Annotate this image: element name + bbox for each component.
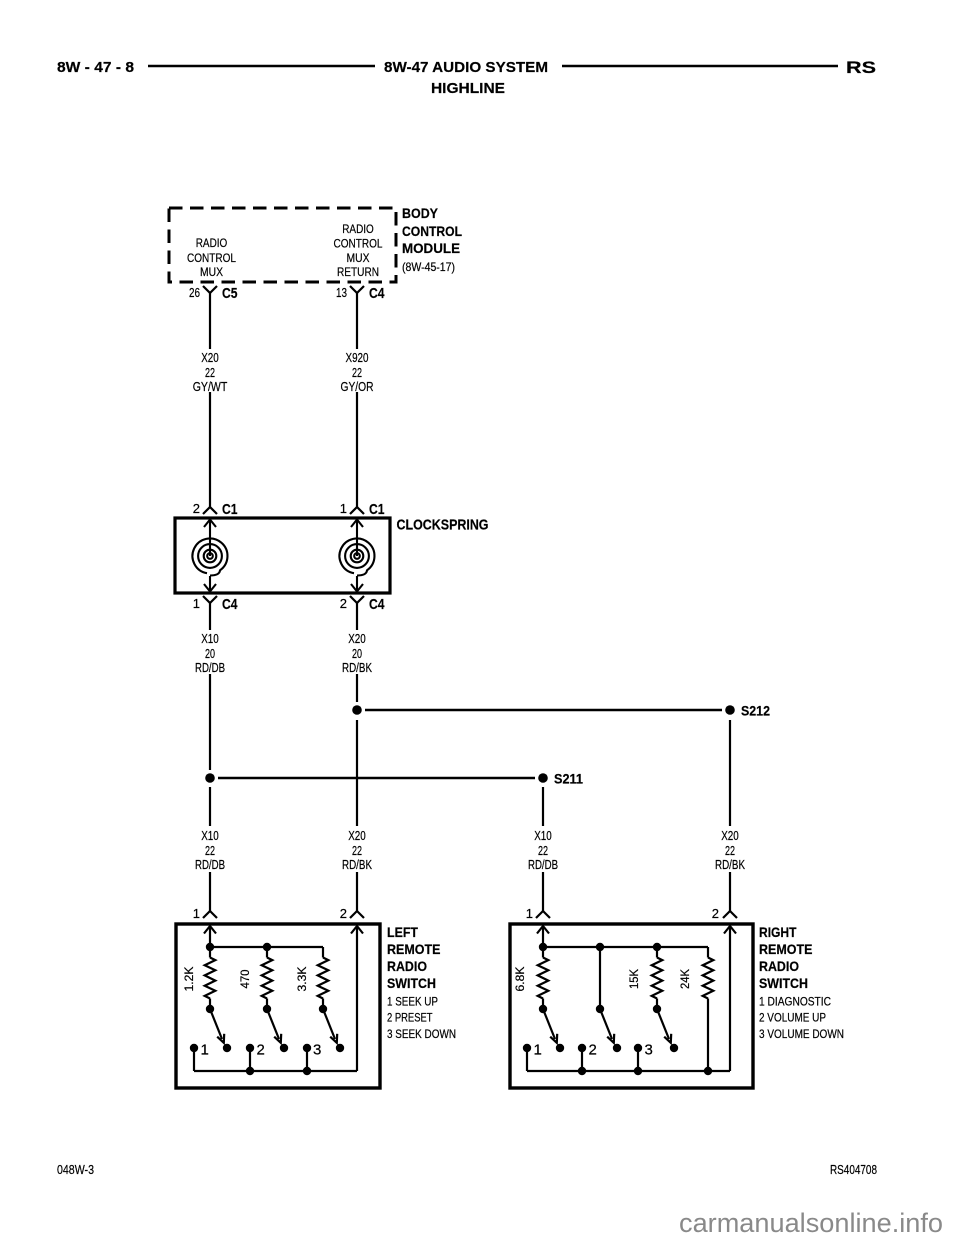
svg-text:HIGHLINE: HIGHLINE bbox=[431, 80, 505, 97]
svg-text:1: 1 bbox=[340, 501, 347, 516]
svg-text:24K: 24K bbox=[678, 969, 692, 989]
svg-text:S211: S211 bbox=[554, 771, 583, 787]
svg-text:1: 1 bbox=[193, 906, 200, 921]
svg-text:1 SEEK UP: 1 SEEK UP bbox=[387, 997, 438, 1009]
svg-text:2: 2 bbox=[712, 906, 719, 921]
left switch legend bbox=[387, 997, 456, 1042]
wire S212 through to left switch pin 2, upper bbox=[356, 720, 358, 826]
svg-text:15K: 15K bbox=[627, 969, 641, 989]
svg-text:RS404708: RS404708 bbox=[830, 1162, 877, 1177]
svg-text:SWITCH: SWITCH bbox=[387, 975, 436, 991]
left switch connector pin 1 bbox=[193, 906, 217, 921]
svg-text:S212: S212 bbox=[741, 703, 770, 719]
right bus junction pin3 bbox=[634, 1067, 642, 1075]
svg-text:RD/BK: RD/BK bbox=[715, 857, 745, 872]
right switch pin2 entry arrow and feed wire bbox=[724, 926, 736, 1071]
switch 2 throw dot bbox=[280, 1044, 288, 1052]
svg-text:X20: X20 bbox=[721, 828, 739, 843]
svg-text:C4: C4 bbox=[369, 596, 385, 613]
resistor 6.8K bbox=[538, 947, 549, 1009]
wire X20 20 RD/BK upper segment bbox=[356, 603, 358, 630]
svg-text:X10: X10 bbox=[201, 828, 219, 843]
svg-text:22: 22 bbox=[725, 843, 735, 858]
svg-text:1: 1 bbox=[534, 1042, 542, 1059]
left switch pin2 entry arrow and feed wire bbox=[351, 926, 363, 1071]
left switch pin1 entry arrow bbox=[204, 926, 216, 947]
svg-text:22: 22 bbox=[352, 843, 362, 858]
svg-text:RADIO: RADIO bbox=[387, 958, 427, 974]
wire X10 to splice S211 bbox=[209, 674, 211, 770]
svg-text:3: 3 bbox=[313, 1042, 321, 1059]
svg-text:RD/BK: RD/BK bbox=[342, 857, 372, 872]
switch 3 contact dot below 3.3K bbox=[319, 1005, 327, 1013]
connector C4 pin 1 bbox=[193, 596, 238, 613]
svg-text:RD/DB: RD/DB bbox=[195, 857, 225, 872]
right bus junction pin2 bbox=[578, 1067, 586, 1075]
svg-text:3: 3 bbox=[645, 1042, 653, 1059]
switch 1 wiper arrow bbox=[210, 1009, 224, 1043]
svg-text:GY/OR: GY/OR bbox=[341, 379, 374, 394]
splice S211 right junction bbox=[538, 773, 548, 783]
junction top of 1.2K bbox=[206, 943, 214, 951]
svg-text:carmanualsonline.info: carmanualsonline.info bbox=[679, 1208, 943, 1238]
svg-text:2: 2 bbox=[340, 596, 347, 611]
wire label X920 22 GY/OR bbox=[341, 350, 374, 394]
connector C1 pin 2 bbox=[193, 501, 238, 518]
svg-text:X10: X10 bbox=[201, 631, 219, 646]
svg-text:CLOCKSPRING: CLOCKSPRING bbox=[397, 517, 489, 534]
svg-text:1: 1 bbox=[526, 906, 533, 921]
svg-text:22: 22 bbox=[205, 365, 215, 380]
svg-text:20: 20 bbox=[352, 646, 362, 661]
wire label X10 22 RD/DB right bbox=[528, 828, 558, 872]
wire into right switch pin 1 bbox=[542, 872, 544, 911]
svg-text:RD/DB: RD/DB bbox=[195, 660, 225, 675]
right switch top rail bbox=[543, 946, 708, 948]
switch 1 seek up: contact dot below 1.2K bbox=[206, 1005, 214, 1013]
right switch 1 wiper arrow bbox=[543, 1009, 557, 1043]
bus junction pin2 bbox=[246, 1067, 254, 1075]
svg-text:C1: C1 bbox=[222, 501, 238, 518]
switch 1 throw dot bbox=[223, 1044, 231, 1052]
svg-text:RADIO: RADIO bbox=[759, 958, 799, 974]
right switch legend bbox=[759, 997, 844, 1042]
svg-text:LEFT: LEFT bbox=[387, 924, 418, 940]
svg-text:BODY: BODY bbox=[402, 205, 439, 221]
svg-text:X20: X20 bbox=[201, 350, 219, 365]
svg-text:X10: X10 bbox=[534, 828, 552, 843]
right switch name bbox=[759, 924, 813, 991]
right pin 3 terminal bbox=[634, 1042, 653, 1072]
right switch connector pin 1 bbox=[526, 906, 550, 921]
svg-text:13: 13 bbox=[336, 285, 347, 300]
wire label X10 20 RD/DB bbox=[195, 631, 225, 675]
svg-text:8W - 47 - 8: 8W - 47 - 8 bbox=[57, 59, 134, 76]
splice S212 left junction bbox=[352, 705, 362, 715]
svg-text:MODULE: MODULE bbox=[402, 240, 460, 256]
BODY CONTROL MODULE name bbox=[402, 205, 462, 274]
switch 2 wiper arrow bbox=[267, 1009, 281, 1043]
wire X920 lower segment bbox=[356, 392, 358, 507]
svg-text:8W-47 AUDIO SYSTEM: 8W-47 AUDIO SYSTEM bbox=[384, 59, 548, 76]
svg-text:REMOTE: REMOTE bbox=[387, 941, 441, 957]
junction top of 6.8K bbox=[539, 943, 547, 951]
wire label X20 22 RD/BK right bbox=[715, 828, 745, 872]
left switch name bbox=[387, 924, 441, 991]
svg-text:MUX: MUX bbox=[200, 265, 223, 279]
svg-text:RD/BK: RD/BK bbox=[342, 660, 372, 675]
wire X20 lower segment bbox=[209, 392, 211, 507]
left pin 1 terminal bbox=[190, 1042, 209, 1072]
svg-text:1: 1 bbox=[193, 596, 200, 611]
left pin 2 terminal bbox=[246, 1042, 265, 1072]
switch 2 contact dot below 470 bbox=[263, 1005, 271, 1013]
right switch pin1 entry arrow bbox=[537, 926, 549, 947]
wire label X10 22 RD/DB left bbox=[195, 828, 225, 872]
right pin 1 terminal bbox=[523, 1042, 542, 1072]
right switch connector pin 2 bbox=[712, 906, 737, 921]
wire label X20 22 GY/WT bbox=[193, 350, 228, 394]
resistor 15K bbox=[652, 947, 663, 1009]
svg-text:20: 20 bbox=[205, 646, 215, 661]
left pin 3 terminal bbox=[303, 1042, 322, 1072]
right switch bottom bus bbox=[527, 1070, 730, 1072]
left switch bottom bus bbox=[194, 1070, 357, 1072]
header right rule bbox=[562, 65, 838, 68]
svg-text:CONTROL: CONTROL bbox=[187, 251, 236, 265]
junction top of 15K bbox=[653, 943, 661, 951]
svg-text:(8W-45-17): (8W-45-17) bbox=[402, 260, 455, 274]
svg-text:048W-3: 048W-3 bbox=[57, 1162, 94, 1177]
wire into left switch pin 1 bbox=[209, 872, 211, 911]
diagnostic straight wire bbox=[599, 947, 601, 1009]
resistor 470 bbox=[262, 947, 273, 1009]
splice S211 horizontal wire bbox=[218, 777, 535, 780]
svg-text:RADIO: RADIO bbox=[196, 236, 228, 250]
right pin 2 terminal bbox=[578, 1042, 597, 1072]
wire S212 right dot down, upper bbox=[729, 720, 731, 826]
connector C4 pin 2 bbox=[340, 596, 385, 613]
svg-text:RIGHT: RIGHT bbox=[759, 924, 797, 940]
svg-text:2: 2 bbox=[193, 501, 200, 516]
bus junction pin3 bbox=[303, 1067, 311, 1075]
switch 3 throw dot bbox=[336, 1044, 344, 1052]
right switch 3 wiper arrow bbox=[657, 1009, 671, 1043]
svg-text:22: 22 bbox=[538, 843, 548, 858]
wire X20 upper segment bbox=[209, 293, 211, 349]
svg-text:470: 470 bbox=[238, 969, 252, 988]
junction top of diagnostic wire bbox=[596, 943, 604, 951]
svg-text:2 PRESET: 2 PRESET bbox=[387, 1013, 433, 1025]
svg-text:3.3K: 3.3K bbox=[295, 967, 309, 992]
clockspring left coil bbox=[192, 520, 227, 592]
wire X10 20 RD/DB upper segment bbox=[209, 603, 211, 630]
left switch connector pin 2 bbox=[340, 906, 364, 921]
svg-text:CONTROL: CONTROL bbox=[334, 237, 383, 251]
right switch 2 contact dot bbox=[596, 1005, 604, 1013]
splice S212 horizontal wire bbox=[365, 709, 722, 712]
svg-text:C1: C1 bbox=[369, 501, 385, 518]
wire label X20 20 RD/BK bbox=[342, 631, 372, 675]
clockspring right coil bbox=[339, 520, 374, 592]
svg-text:RADIO: RADIO bbox=[342, 222, 374, 236]
connector C5 pin 26 bbox=[189, 285, 238, 302]
svg-text:1: 1 bbox=[201, 1042, 209, 1059]
right switch 1 throw dot bbox=[556, 1044, 564, 1052]
svg-text:RETURN: RETURN bbox=[337, 265, 379, 279]
svg-text:3 SEEK DOWN: 3 SEEK DOWN bbox=[387, 1029, 456, 1041]
svg-text:X20: X20 bbox=[348, 631, 366, 646]
wire into right switch pin 2 bbox=[729, 872, 731, 911]
switch 3 wiper arrow bbox=[323, 1009, 337, 1043]
right switch 3 contact dot below 15K bbox=[653, 1005, 661, 1013]
junction top of 470 bbox=[263, 943, 271, 951]
svg-text:REMOTE: REMOTE bbox=[759, 941, 813, 957]
svg-text:MUX: MUX bbox=[347, 251, 370, 265]
resistor 1.2K bbox=[205, 947, 216, 1009]
wire label X20 22 RD/BK left bbox=[342, 828, 372, 872]
right switch 2 throw dot bbox=[613, 1044, 621, 1052]
BCM pin label RADIO CONTROL MUX RETURN bbox=[334, 222, 383, 279]
connector C4 pin 13 bbox=[336, 285, 385, 302]
svg-text:GY/WT: GY/WT bbox=[193, 379, 228, 394]
right switch 2 wiper arrow bbox=[600, 1009, 614, 1043]
svg-text:RS: RS bbox=[846, 58, 876, 77]
svg-text:X920: X920 bbox=[346, 350, 369, 365]
svg-text:6.8K: 6.8K bbox=[513, 967, 527, 992]
right remote radio switch box bbox=[510, 924, 753, 1088]
wire X20 to splice S212 bbox=[356, 674, 358, 702]
svg-text:SWITCH: SWITCH bbox=[759, 975, 808, 991]
svg-text:22: 22 bbox=[205, 843, 215, 858]
svg-text:2 VOLUME UP: 2 VOLUME UP bbox=[759, 1013, 826, 1025]
svg-text:X20: X20 bbox=[348, 828, 366, 843]
svg-text:C5: C5 bbox=[222, 285, 238, 302]
right switch 3 throw dot bbox=[670, 1044, 678, 1052]
svg-text:C4: C4 bbox=[369, 285, 385, 302]
resistor 24K bbox=[703, 947, 714, 1071]
svg-text:C4: C4 bbox=[222, 596, 238, 613]
svg-text:RD/DB: RD/DB bbox=[528, 857, 558, 872]
svg-text:1.2K: 1.2K bbox=[182, 967, 196, 992]
clockspring box bbox=[175, 518, 390, 593]
svg-text:26: 26 bbox=[189, 285, 200, 300]
svg-text:CONTROL: CONTROL bbox=[402, 223, 462, 239]
connector C1 pin 1 bbox=[340, 501, 385, 518]
wire X920 upper segment bbox=[356, 293, 358, 349]
wire S211 right dot down, upper bbox=[542, 787, 544, 826]
wire S211 down from left dot, upper bbox=[209, 787, 211, 826]
splice S211 left junction bbox=[205, 773, 215, 783]
svg-text:2: 2 bbox=[589, 1042, 597, 1059]
body control module dashed box bbox=[169, 208, 396, 282]
header left rule bbox=[148, 65, 375, 68]
splice S212 right junction bbox=[725, 705, 735, 715]
svg-text:1 DIAGNOSTIC: 1 DIAGNOSTIC bbox=[759, 997, 831, 1009]
svg-text:2: 2 bbox=[340, 906, 347, 921]
left switch top rail bbox=[210, 946, 323, 948]
left remote radio switch box bbox=[176, 924, 380, 1088]
svg-text:3 VOLUME DOWN: 3 VOLUME DOWN bbox=[759, 1029, 844, 1041]
BCM pin label RADIO CONTROL MUX bbox=[187, 236, 236, 279]
resistor 3.3K bbox=[318, 947, 329, 1009]
svg-text:2: 2 bbox=[257, 1042, 265, 1059]
wire into left switch pin 2 bbox=[356, 872, 358, 911]
svg-text:22: 22 bbox=[352, 365, 362, 380]
right switch 1 contact dot below 6.8K bbox=[539, 1005, 547, 1013]
right bus junction 24K bbox=[704, 1067, 712, 1075]
